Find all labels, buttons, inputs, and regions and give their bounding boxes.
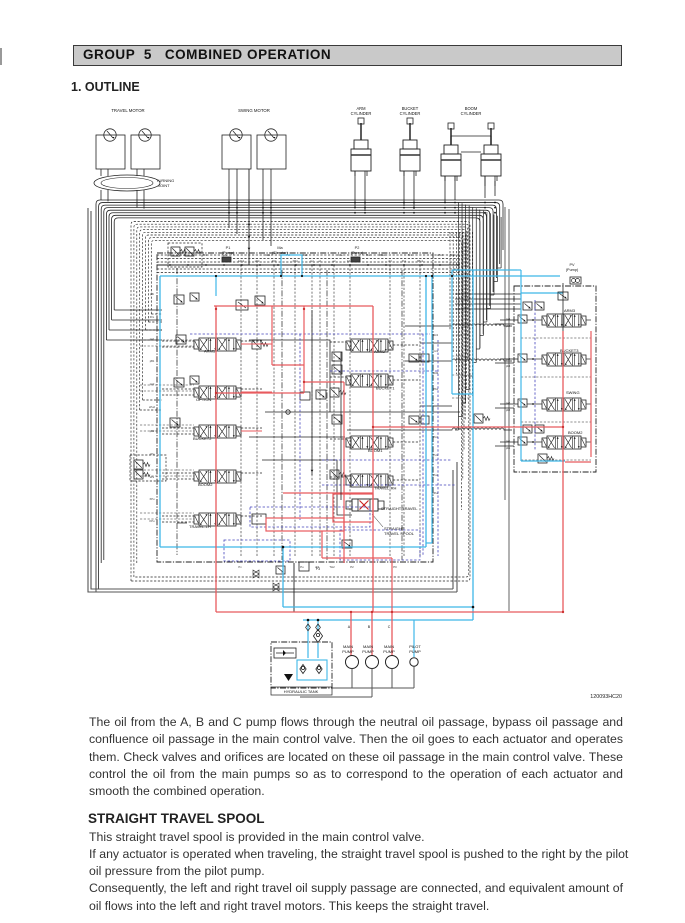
svg-text:pA1: pA1 — [150, 337, 155, 341]
svg-text:HYDRAULIC TANK: HYDRAULIC TANK — [284, 689, 319, 694]
manifold solid line — [157, 264, 460, 266]
cyan main bus — [160, 275, 560, 277]
svg-text:(Pump): (Pump) — [351, 251, 364, 255]
scan artifact left edge — [0, 48, 2, 65]
turning joint — [94, 175, 160, 191]
red spool stubs left column — [241, 343, 272, 345]
leader line — [372, 514, 383, 527]
svg-text:PUMP: PUMP — [362, 649, 374, 654]
comb long tails — [504, 207, 506, 500]
pilot valve ARM3 — [518, 315, 527, 323]
swing M line — [248, 169, 250, 265]
svg-text:P0: P0 — [393, 565, 397, 569]
manifold dashed horizontals — [157, 254, 460, 256]
svg-text:pB1: pB1 — [150, 359, 155, 363]
svg-text:pb3: pb3 — [506, 364, 511, 368]
blue pilot dash h2 — [330, 370, 438, 372]
red left column drop — [215, 306, 217, 612]
cyan lower drop — [282, 547, 284, 607]
svg-text:XAb2: XAb2 — [238, 259, 245, 263]
tank strainer diamond — [313, 630, 322, 643]
top band junction dots — [354, 202, 356, 204]
svg-text:XBd: XBd — [293, 259, 298, 263]
svg-text:Pc1: Pc1 — [408, 253, 413, 257]
internal line c — [262, 460, 352, 515]
spool ARM3 right block — [542, 316, 547, 325]
cyan jog h394 — [452, 393, 473, 395]
cyan pilot pump feed — [413, 620, 415, 657]
internal line a — [249, 340, 330, 412]
spool BOOM2 right block — [542, 438, 547, 447]
red h 493 — [283, 492, 373, 494]
hydraulic tank box — [271, 642, 332, 688]
main control valve dash-dot box — [157, 253, 433, 562]
mid valve with spring — [252, 340, 261, 349]
svg-text:XBp2: XBp2 — [417, 259, 424, 263]
cylinder body — [409, 123, 411, 140]
pump drive shaft line — [300, 667, 414, 698]
cyan tank feeds — [307, 620, 309, 658]
travel motor wires — [100, 169, 102, 176]
red st box drop — [321, 531, 323, 558]
inner section dash-dot left — [176, 268, 178, 555]
internal line g — [420, 405, 452, 407]
inner section dash-dot mid2 — [326, 270, 328, 560]
red right block bottom h — [565, 461, 591, 463]
motor body boxes — [96, 135, 125, 169]
spool BUCKET2 port dashes — [162, 427, 194, 429]
blue pilot dash h4 — [322, 484, 455, 486]
svg-text:BUCKET1: BUCKET1 — [376, 386, 395, 391]
svg-text:pAt: pAt — [223, 253, 227, 257]
tank filter triangle — [284, 674, 293, 681]
svg-text:B: B — [368, 625, 371, 629]
svg-text:120093HC20: 120093HC20 — [590, 694, 622, 700]
svg-text:PV: PV — [569, 263, 575, 267]
mid small comp 2 — [236, 300, 248, 310]
svg-text:dr3: dr3 — [315, 565, 319, 569]
blue pilot dash box1 — [340, 530, 420, 560]
svg-text:ARM3: ARM3 — [564, 308, 576, 313]
svg-text:Ma: Ma — [277, 246, 283, 250]
svg-text:SWING MOTOR: SWING MOTOR — [238, 108, 270, 113]
pilot link BOOM2 — [500, 441, 518, 443]
center orifice circle — [286, 410, 290, 414]
red h 558 — [322, 557, 392, 559]
motor body boxes — [222, 135, 251, 169]
blue pilot dash h1 — [190, 333, 430, 335]
main pump 3 — [386, 656, 399, 669]
svg-text:Pu: Pu — [300, 565, 304, 569]
cyan p1 stub — [215, 276, 217, 296]
spool ARM2 — [346, 341, 351, 350]
svg-text:CYLINDER: CYLINDER — [351, 111, 372, 116]
pilot pump — [410, 658, 418, 666]
spool ARM1 — [194, 340, 199, 349]
cyan pump bus — [303, 619, 473, 621]
svg-text:STRAIGHT TRAVEL: STRAIGHT TRAVEL — [381, 506, 418, 511]
svg-text:PcL: PcL — [150, 315, 155, 319]
spool OPTION — [194, 388, 199, 397]
label HYDRAULIC TANK — [271, 687, 332, 695]
spool TRAVEL-LH port dashes — [162, 515, 194, 517]
red h 385 — [272, 364, 304, 366]
red straight travel box — [333, 494, 373, 522]
cyan right block left v — [520, 293, 522, 461]
svg-text:sRd: sRd — [255, 259, 260, 263]
red pump B drop — [371, 612, 373, 656]
cylinder body — [450, 128, 452, 145]
red v 392 — [391, 558, 393, 612]
left small valve 5 — [170, 418, 180, 427]
blue pilot dash travel-lh — [250, 507, 370, 527]
cyan right block bottom h — [521, 460, 565, 462]
mid comp near bucket1 — [332, 352, 342, 361]
red junction dots — [215, 308, 217, 310]
spool BOOM1 port dashes — [330, 438, 346, 440]
red straight travel box2 — [266, 518, 344, 531]
svg-text:BOOM2: BOOM2 — [198, 482, 213, 487]
red h 382 — [304, 381, 344, 383]
bottom small valve — [276, 566, 285, 574]
svg-text:Ra2: Ra2 — [303, 253, 308, 257]
inner section dash-dot mid — [281, 270, 283, 560]
outer solid wire bundle — [96, 200, 503, 592]
svg-text:G2: G2 — [310, 259, 314, 263]
svg-text:BUCKET2: BUCKET2 — [193, 436, 212, 441]
pu3 box — [342, 540, 352, 548]
red v 304 — [303, 306, 305, 393]
cyan upper jog h270 — [452, 269, 517, 271]
svg-text:PUMP: PUMP — [409, 649, 421, 654]
left port connector dashes — [140, 339, 194, 341]
spool BOOM2 port dashes — [162, 472, 194, 474]
svg-text:TRAVEL-LH: TRAVEL-LH — [189, 524, 211, 529]
motor circle — [139, 129, 151, 141]
swing motor wires — [228, 169, 230, 228]
cylinder body — [360, 123, 362, 140]
cyan smotor box — [281, 255, 302, 276]
svg-text:pb4: pb4 — [506, 324, 511, 328]
svg-text:TRAVEL MOTOR: TRAVEL MOTOR — [111, 108, 144, 113]
fittings pair boom2 — [523, 425, 532, 433]
spool BOOM1 — [346, 438, 351, 447]
red pump A drop — [350, 612, 352, 656]
cyan junction dots — [472, 606, 475, 609]
blue pilot dash v3 — [437, 340, 439, 556]
cyan v452 — [451, 270, 453, 394]
manifold drop dashed verticals — [240, 265, 242, 556]
svg-text:Pz1: Pz1 — [203, 253, 208, 257]
svg-text:BOOM2: BOOM2 — [568, 430, 583, 435]
svg-text:sPu: sPu — [150, 475, 155, 479]
svg-text:A: A — [348, 625, 351, 629]
red v 272 — [271, 306, 273, 365]
cyan right block outer drop — [472, 270, 474, 620]
svg-text:CYLINDER: CYLINDER — [400, 111, 421, 116]
relief pair left2 — [174, 295, 184, 304]
left bottom relief — [130, 455, 166, 481]
spool TRAVEL-RH port dashes — [330, 476, 346, 478]
spool BUCKET2 — [194, 427, 199, 436]
motor circle — [230, 129, 242, 141]
svg-text:CYLINDER: CYLINDER — [461, 111, 482, 116]
svg-text:pa1: pa1 — [506, 439, 511, 443]
svg-text:XPu: XPu — [150, 497, 155, 501]
cylinder wires — [354, 176, 356, 208]
remote valve block dash-dot box — [514, 286, 596, 472]
red right block inner v — [590, 331, 592, 457]
red right block drop — [562, 331, 564, 613]
svg-text:sPc2: sPc2 — [437, 253, 443, 257]
relief pair left — [168, 243, 202, 267]
dashed wire bundle — [131, 222, 470, 582]
comb hook horizontals — [452, 334, 470, 336]
svg-text:pJb: pJb — [150, 292, 155, 296]
svg-text:(Pump): (Pump) — [566, 268, 579, 272]
black pv feed — [562, 283, 564, 331]
pilot link ARM3 — [500, 319, 518, 321]
spool SWING right block — [542, 400, 547, 409]
tank cyan box — [297, 660, 327, 680]
svg-text:SWING: SWING — [566, 390, 580, 395]
outer border double line — [88, 208, 457, 592]
lift check box — [252, 514, 266, 524]
cyan mid drop — [425, 276, 427, 547]
straight travel valve — [352, 499, 378, 511]
svg-text:XBb1: XBb1 — [379, 253, 386, 257]
internal line d — [293, 563, 295, 612]
svg-text:pRc2: pRc2 — [432, 333, 439, 337]
svg-text:TH2: TH2 — [329, 565, 335, 569]
svg-text:sPu3: sPu3 — [432, 453, 438, 457]
svg-text:KPu: KPu — [150, 519, 155, 523]
svg-text:BOOM1: BOOM1 — [368, 448, 383, 453]
svg-text:pA2: pA2 — [150, 382, 155, 386]
blue pilot dash box2 — [224, 540, 290, 561]
svg-text:Pd2: Pd2 — [272, 259, 277, 263]
paragraph 1 — [89, 714, 623, 800]
spool TRAVEL-RH — [346, 476, 351, 485]
tank check valves — [300, 665, 306, 674]
cyan mid drop b — [431, 276, 433, 543]
spool BOOM2 — [194, 472, 199, 481]
internal line b — [249, 436, 345, 438]
cyan left drop — [159, 276, 161, 547]
right block small fittings — [523, 302, 532, 310]
svg-text:Rd1: Rd1 — [266, 253, 271, 257]
svg-text:P1: P1 — [226, 246, 231, 250]
main pump 1 — [346, 656, 359, 669]
travel side fitting — [330, 470, 339, 479]
svg-text:pa4: pa4 — [506, 317, 511, 321]
red h 393 — [216, 392, 304, 394]
blue pilot dash v1 — [299, 334, 301, 520]
black mid vertical 341 — [340, 352, 342, 500]
svg-text:dr2: dr2 — [388, 259, 392, 263]
pilot link BUCKET3 — [500, 358, 518, 360]
svg-text:XAa2: XAa2 — [347, 259, 354, 263]
red v 344 — [343, 382, 345, 563]
red pump C drop — [391, 612, 393, 656]
svg-text:ARM2: ARM2 — [374, 349, 386, 354]
svg-text:Pv: Pv — [238, 565, 242, 569]
cyan right block top h — [517, 269, 521, 271]
main pump 2 — [366, 656, 379, 669]
mid cluster b — [409, 416, 419, 424]
mid cluster a — [409, 354, 419, 362]
svg-text:XAa: XAa — [338, 253, 343, 257]
comb to right block links — [455, 293, 521, 295]
pilot link SWING — [500, 403, 518, 405]
svg-text:uPc2: uPc2 — [432, 435, 438, 439]
cyan bus junction dots — [215, 275, 217, 277]
red bottom main h — [216, 611, 563, 613]
center component cluster — [316, 390, 326, 399]
svg-text:ARM1: ARM1 — [204, 349, 216, 354]
left small valve 4 — [174, 378, 184, 387]
heading STRAIGHT TRAVEL SPOOL — [88, 811, 265, 826]
boom1 side valve — [332, 415, 342, 424]
boom cylinder link wire — [461, 151, 481, 153]
pilot comb vertical lines — [458, 202, 460, 430]
spool ARM2 port dashes — [330, 341, 346, 343]
motor circle — [104, 129, 116, 141]
blue pilot dash v4 right block — [534, 300, 536, 450]
svg-text:JOINT: JOINT — [158, 183, 170, 188]
svg-text:pa3: pa3 — [506, 357, 511, 361]
svg-text:PUMP: PUMP — [383, 649, 395, 654]
spool BUCKET1 — [346, 376, 351, 385]
squiggle crossing row 3 — [347, 428, 512, 430]
squiggle crossing row 2 — [405, 359, 512, 361]
spool OPTION port dashes — [162, 388, 194, 390]
cylinder body — [490, 128, 492, 145]
svg-text:a1: a1 — [319, 259, 322, 263]
svg-text:C: C — [388, 625, 391, 629]
cyan bottom bus — [160, 546, 426, 548]
svg-text:Pb2: Pb2 — [366, 253, 371, 257]
mid cluster c — [474, 414, 483, 423]
svg-text:Pns: Pns — [402, 259, 407, 263]
svg-text:TRAVEL SPOOL: TRAVEL SPOOL — [384, 531, 415, 536]
svg-text:P2: P2 — [350, 565, 354, 569]
red main h 306 — [214, 305, 373, 307]
mid small comp 1 — [255, 296, 265, 305]
spool ARM1 port dashes — [162, 340, 194, 342]
svg-text:pb1: pb1 — [506, 446, 511, 450]
svg-text:Pd1: Pd1 — [450, 253, 455, 257]
motor circle — [265, 129, 277, 141]
valve mid vertical — [311, 310, 313, 475]
inner section dash-dot right — [401, 270, 403, 560]
svg-text:pB2: pB2 — [150, 429, 155, 433]
internal line f — [420, 342, 452, 344]
blue pilot dash v2 — [422, 334, 424, 556]
pilot valve BOOM2 — [518, 437, 527, 445]
section heading — [71, 80, 140, 94]
blue pilot dash h3 — [322, 459, 452, 461]
svg-text:TRAVEL-RH: TRAVEL-RH — [374, 486, 396, 491]
spool BUCKET3 right block — [542, 355, 547, 364]
paragraph 2 — [89, 829, 623, 915]
svg-text:pb2: pb2 — [506, 408, 511, 412]
bottom orifice symbols — [253, 570, 259, 578]
red h confluence — [373, 426, 563, 428]
svg-text:PUMP: PUMP — [342, 649, 354, 654]
spool BUCKET1 port dashes — [330, 376, 346, 378]
pilot valve SWING — [518, 399, 527, 407]
hydraulic schematic diagram — [0, 0, 685, 705]
tank inner top valve — [274, 648, 296, 658]
red mid column drop — [372, 306, 374, 612]
squiggle crossing row 1 — [405, 324, 512, 326]
group header bar — [73, 45, 622, 66]
svg-text:OPTION: OPTION — [196, 397, 211, 402]
svg-text:a2: a2 — [333, 259, 336, 263]
internal line e — [177, 522, 187, 524]
cyan lower bus — [283, 606, 473, 608]
svg-text:pPu: pPu — [150, 452, 155, 456]
spool TRAVEL-LH — [194, 515, 199, 524]
check small left3 — [176, 335, 186, 344]
pilot valve BUCKET3 — [518, 354, 527, 362]
svg-text:sPu2: sPu2 — [149, 405, 155, 409]
svg-text:P2: P2 — [355, 246, 360, 250]
svg-text:pa2: pa2 — [506, 401, 511, 405]
